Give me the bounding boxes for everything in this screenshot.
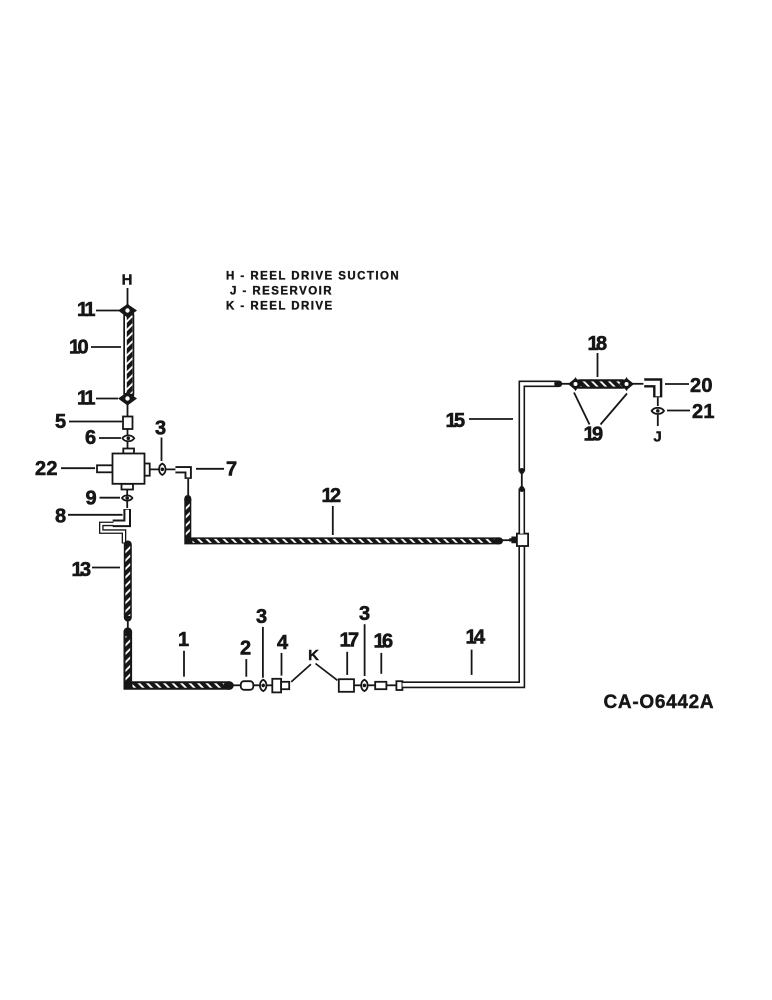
- svg-text:20: 20: [690, 375, 713, 397]
- wire 3 to 4: [267, 684, 273, 686]
- fitting 19 left: [568, 377, 583, 391]
- label 13: [72, 559, 121, 581]
- label 14: [466, 627, 487, 675]
- wire 16 to tube 14: [387, 684, 398, 686]
- svg-text:3: 3: [256, 606, 267, 628]
- label 18: [588, 333, 608, 377]
- node J: [653, 429, 661, 446]
- svg-text:J - RESERVOIR: J - RESERVOIR: [230, 286, 333, 298]
- tube 15 upper segment: [522, 384, 559, 472]
- hose 18: [580, 379, 623, 389]
- wire 3 to 16: [368, 684, 376, 686]
- tube 14: [403, 547, 522, 685]
- label 5: [55, 411, 122, 433]
- label 6: [85, 427, 121, 449]
- fitting 2: [241, 681, 254, 690]
- tube 15 joint: [521, 472, 523, 488]
- wire 17 to 3: [354, 684, 361, 686]
- node K with leaders: [291, 647, 337, 682]
- elbow 7: [175, 470, 188, 479]
- svg-text:H: H: [122, 272, 133, 289]
- svg-text:22: 22: [35, 458, 58, 480]
- valve block 22: [97, 449, 150, 490]
- label 20: [665, 375, 713, 397]
- wire 7 to hose 12: [187, 479, 189, 497]
- svg-text:17: 17: [340, 630, 360, 652]
- fitting 3 bottom left: [260, 680, 266, 691]
- svg-text:18: 18: [588, 333, 608, 355]
- label 8: [55, 506, 123, 528]
- label 17: [340, 630, 360, 675]
- svg-text:2: 2: [240, 638, 251, 660]
- fitting 16: [375, 682, 386, 689]
- svg-text:11: 11: [77, 388, 95, 410]
- fitting 11 top: [118, 303, 137, 319]
- svg-text:CA-O6442A: CA-O6442A: [604, 692, 715, 713]
- fitting 21: [652, 408, 664, 426]
- label 11 top: [77, 299, 119, 321]
- svg-text:H - REEL DRIVE SUCTION: H - REEL DRIVE SUCTION: [226, 271, 400, 283]
- fitting 3 upper: [159, 464, 165, 475]
- hose 12: [188, 499, 500, 541]
- legend J line: [230, 286, 333, 298]
- hose 13 lower segment and hose 1: [128, 632, 230, 686]
- svg-text:K - REEL DRIVE: K - REEL DRIVE: [226, 301, 334, 313]
- label 3 bottom left: [256, 606, 267, 678]
- label 22: [35, 458, 95, 480]
- svg-text:11: 11: [77, 299, 95, 321]
- label 1: [178, 629, 189, 677]
- svg-text:3: 3: [155, 418, 166, 440]
- legend H line: [226, 271, 400, 283]
- wire 11 to 5: [127, 405, 129, 417]
- svg-text:3: 3: [359, 603, 370, 625]
- wire 5 to 6: [127, 429, 129, 449]
- svg-text:13: 13: [72, 559, 92, 581]
- tee junction: [517, 534, 528, 546]
- svg-text:15: 15: [446, 410, 466, 432]
- svg-text:4: 4: [277, 632, 289, 654]
- label 11 bottom: [77, 388, 118, 410]
- fitting 6: [122, 435, 134, 441]
- hose 13 upper segment: [124, 545, 132, 618]
- svg-text:5: 5: [55, 411, 66, 433]
- fitting 19 right: [619, 377, 634, 391]
- label 19: [574, 393, 627, 446]
- label 10: [69, 337, 121, 359]
- fitting 5: [123, 417, 133, 430]
- svg-text:9: 9: [86, 488, 97, 510]
- label 9: [86, 488, 121, 510]
- svg-text:6: 6: [85, 427, 96, 449]
- tee inlet fitting: [500, 537, 517, 544]
- label 7: [196, 459, 237, 481]
- svg-text:16: 16: [374, 631, 394, 653]
- wire 22 to 3: [150, 468, 176, 470]
- tube 14 end collar: [396, 681, 402, 690]
- label 16: [374, 631, 394, 674]
- fitting 4: [272, 679, 289, 693]
- wire hose1 to fitting 2: [230, 684, 241, 686]
- label 12: [322, 485, 342, 535]
- wire 19 to 20: [632, 383, 645, 385]
- part number CA-O6442A: [604, 692, 715, 713]
- label 2: [240, 638, 251, 677]
- svg-text:8: 8: [55, 506, 66, 528]
- svg-text:12: 12: [322, 485, 342, 507]
- hose 10: [123, 315, 135, 394]
- wire 15 to 19: [557, 383, 570, 385]
- wire 20 to 21: [657, 398, 659, 407]
- reel drive box 17: [339, 679, 354, 692]
- wire 2 to 3: [254, 684, 260, 686]
- legend K line: [226, 301, 334, 313]
- elbow 8: [112, 509, 127, 523]
- svg-text:1: 1: [178, 629, 189, 651]
- svg-text:7: 7: [226, 459, 237, 481]
- label 4: [277, 632, 289, 676]
- svg-text:J: J: [653, 429, 661, 446]
- fitting 3 bottom right: [361, 680, 367, 691]
- tube 15 lower segment: [518, 489, 525, 534]
- label 3 bottom right: [359, 603, 370, 676]
- svg-text:K: K: [308, 647, 319, 664]
- tube 8 to hose 13: [101, 524, 124, 544]
- svg-text:19: 19: [584, 424, 604, 446]
- joint in hose 13: [127, 618, 129, 631]
- node H: [122, 272, 133, 306]
- elbow 20: [643, 383, 657, 398]
- svg-text:21: 21: [692, 401, 715, 423]
- label 3 upper: [155, 418, 166, 462]
- label 15: [446, 410, 514, 432]
- label 21: [667, 401, 715, 423]
- svg-text:10: 10: [69, 337, 89, 359]
- fitting 11 bottom: [118, 391, 137, 407]
- fitting 9: [122, 490, 132, 509]
